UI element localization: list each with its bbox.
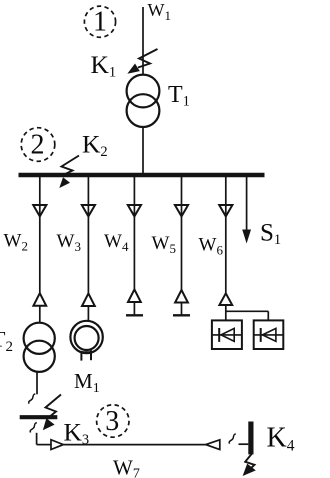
wire W4 end — [133, 302, 135, 315]
svg-text:3: 3 — [105, 406, 119, 437]
wire feeder W4 — [133, 177, 135, 289]
motor M1 inner circle — [75, 326, 99, 350]
svg-text:W7: W7 — [113, 456, 140, 478]
svg-text:W6: W6 — [199, 235, 224, 258]
feeder W4 load-side arrow (open triangle) — [128, 289, 141, 302]
feeder W3 bus-side arrow (open triangle) — [82, 205, 95, 216]
svg-text:T2: T2 — [0, 326, 13, 355]
svg-text:W1: W1 — [148, 0, 172, 23]
feeder W6 bus-side arrow (open triangle) — [219, 205, 232, 216]
wire below T2 — [36, 372, 38, 395]
node 3 dashed circle — [97, 405, 129, 437]
transformer T1 — [127, 75, 160, 108]
busbar (section bus) — [19, 173, 265, 178]
load arrow S1 — [246, 177, 248, 230]
svg-text:1: 1 — [93, 6, 107, 37]
flexible link mark right — [229, 434, 236, 444]
svg-text:T1: T1 — [168, 82, 190, 110]
svg-text:W2: W2 — [4, 230, 28, 253]
flexible link mark lower — [30, 423, 37, 433]
svg-text:K4: K4 — [267, 422, 295, 454]
fault bar K4 (thick stroke) — [248, 422, 253, 455]
node 1 dashed circle — [84, 6, 115, 37]
svg-text:S1: S1 — [260, 220, 281, 249]
motor M1 leads — [80, 351, 82, 361]
svg-text:M1: M1 — [74, 369, 100, 396]
wire W2 to T2 — [39, 306, 41, 323]
flexible link mark upper — [29, 394, 36, 404]
W5 end bar — [173, 314, 190, 316]
fault K4 lightning arrow — [245, 453, 254, 470]
lower busbar (fault bar K3) — [20, 415, 58, 419]
wire feeder W6 — [225, 177, 227, 293]
wire to W7 — [36, 433, 38, 445]
fault K3 lightning arrow — [46, 395, 62, 419]
wire to K4 bar — [239, 443, 249, 445]
node 2 dashed circle — [21, 128, 55, 162]
feeder W2 bus-side arrow (open triangle) — [33, 205, 46, 216]
wire W1 incoming supply line — [142, 7, 144, 75]
wire W7 line — [63, 444, 206, 446]
feeder W5 bus-side arrow (open triangle) — [175, 205, 188, 216]
rectifier box 2 — [254, 320, 284, 349]
transformer T2 — [24, 323, 55, 354]
diode symbol in box 1 — [212, 334, 242, 336]
feeder W4 bus-side arrow (open triangle) — [128, 205, 141, 216]
feeder W5 load-side arrow (open triangle) — [175, 290, 188, 303]
wire feeder W2 — [39, 177, 41, 293]
wire W6 down to branch — [225, 305, 227, 320]
wire T1 to busbar — [142, 127, 144, 173]
svg-text:K1: K1 — [91, 50, 117, 81]
fault K2 lightning arrow — [62, 156, 80, 175]
wire feeder W3 — [87, 177, 89, 293]
feeder W2 load-side arrow (open triangle) — [33, 293, 46, 306]
svg-text:K2: K2 — [82, 129, 108, 160]
feeder W3 load-side arrow (open triangle) — [82, 293, 95, 306]
diode symbol in box 2 — [254, 334, 284, 336]
svg-text:2: 2 — [31, 129, 45, 160]
W4 end bar — [126, 314, 143, 316]
rectifier box 1 — [212, 320, 242, 349]
wire W5 end — [181, 303, 183, 315]
wire feeder W5 — [181, 177, 183, 290]
W7 sending-end arrow (open triangle) — [51, 440, 63, 450]
wire W3 to motor — [87, 306, 89, 321]
motor M1 outer circle — [70, 321, 102, 353]
svg-text:W5: W5 — [152, 233, 176, 256]
svg-text:K3: K3 — [64, 418, 90, 449]
W7 receiving-end arrow (open triangle) — [206, 440, 220, 450]
feeder W6 load-side arrow (open triangle) — [219, 293, 232, 305]
svg-text:W4: W4 — [104, 231, 129, 254]
wire branch to second rectifier — [226, 310, 268, 312]
fault K1 lightning arrow — [138, 49, 158, 68]
svg-text:W3: W3 — [57, 231, 81, 254]
